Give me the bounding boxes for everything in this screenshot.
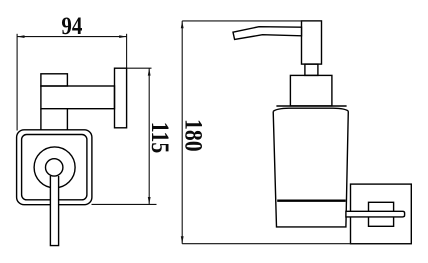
- flange outer square: [17, 130, 92, 205]
- dimension 180 line: [181, 21, 183, 244]
- dimension 94 extension line right: [126, 34, 128, 68]
- dimension 94 arrow right: [119, 35, 126, 38]
- svg-text:180: 180: [179, 119, 207, 152]
- dimension 115 bottom extension line: [92, 203, 157, 205]
- pump shaft: [302, 21, 322, 64]
- dimension 94 line: [17, 36, 127, 38]
- post cap rectangle: [41, 74, 68, 86]
- dimension 180 arrow top: [181, 21, 184, 28]
- bottle shoulder arc: [273, 108, 348, 111]
- mounting post: [40, 109, 42, 130]
- pump spout: [233, 27, 302, 40]
- holder ring outer circle: [34, 147, 75, 188]
- holder rod: [50, 176, 58, 246]
- dimension 115 arrow bottom: [148, 197, 151, 204]
- bracket arm: [41, 86, 115, 109]
- pump collar: [290, 75, 332, 106]
- dispenser bottle body: [273, 111, 348, 227]
- wall bracket outer square (side view): [351, 184, 412, 244]
- wall plate (side view): [115, 68, 127, 128]
- dimension 115 arrow top: [148, 68, 151, 75]
- pump neck: [305, 64, 318, 75]
- holder arm bar: [346, 211, 405, 217]
- mounting post right edge: [66, 109, 68, 130]
- dimension 94 extension line left: [16, 34, 18, 131]
- dimension 115 line: [148, 68, 150, 204]
- bottle holder ring edge (thick): [277, 199, 346, 201]
- dimension 180 arrow bottom: [181, 236, 184, 243]
- svg-text:94: 94: [61, 11, 82, 39]
- wall bracket inner square: [369, 202, 394, 226]
- dimension 94 arrow left: [17, 35, 24, 38]
- dimension 115 top extension line: [127, 67, 152, 69]
- holder ring inner circle: [46, 159, 63, 176]
- svg-text:115: 115: [146, 122, 174, 153]
- dimension 180 top extension line: [182, 20, 321, 22]
- flange inner square: [22, 135, 87, 200]
- baseline: [182, 243, 411, 245]
- bottle rim line: [276, 105, 346, 107]
